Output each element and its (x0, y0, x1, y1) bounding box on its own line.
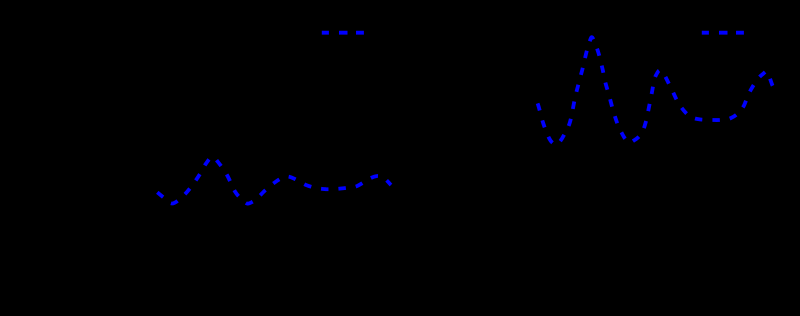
right panel legend line sample (702, 31, 744, 35)
left panel legend line sample (322, 31, 364, 35)
right panel dashed curve (535, 37, 775, 145)
left panel dashed curve (154, 157, 391, 204)
